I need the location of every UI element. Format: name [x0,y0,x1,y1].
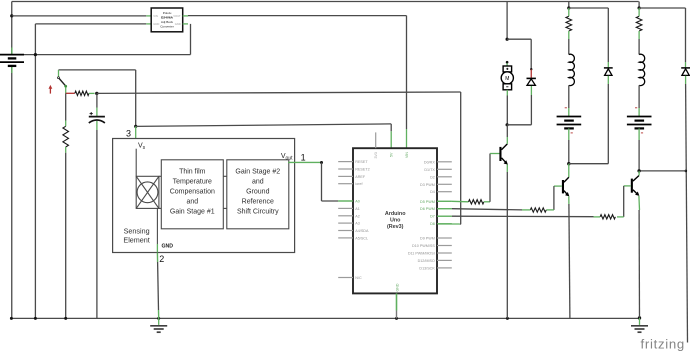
svg-text:(Rev3): (Rev3) [387,224,404,230]
svg-text:D3 PWM: D3 PWM [420,183,435,187]
svg-text:Converter: Converter [160,24,174,28]
svg-text:RESET: RESET [355,160,368,164]
svg-text:Gain Stage #2: Gain Stage #2 [235,169,280,176]
svg-text:A5/SCL: A5/SCL [355,236,368,240]
svg-text:and: and [252,179,264,186]
svg-text:AREF: AREF [355,175,366,179]
svg-text:D5 PWM: D5 PWM [420,200,435,204]
svg-text:D0/RX: D0/RX [424,160,435,164]
svg-text:Uno: Uno [390,217,401,223]
svg-text:Pololu: Pololu [163,11,172,15]
svg-text:M: M [505,76,509,82]
svg-text:GND: GND [162,244,174,250]
svg-text:Vs: Vs [138,143,146,151]
svg-text:D7: D7 [430,215,435,219]
svg-text:ioref: ioref [355,182,363,186]
svg-text:D12/MISO: D12/MISO [418,259,435,263]
svg-text:Shift Circuitry: Shift Circuitry [237,208,279,215]
svg-text:3V3: 3V3 [374,152,378,158]
svg-text:Sensing: Sensing [124,227,150,236]
svg-text:Vout: Vout [281,153,293,161]
svg-text:5V: 5V [390,152,394,157]
svg-text:GND: GND [396,283,400,291]
svg-text:A1: A1 [355,207,360,211]
svg-text:Gain Stage #1: Gain Stage #1 [170,208,215,215]
svg-text:A3: A3 [355,222,360,226]
svg-text:Element: Element [123,236,149,245]
svg-text:Compensation: Compensation [170,189,215,196]
svg-text:Thin film: Thin film [179,169,206,176]
svg-text:D2: D2 [430,175,435,179]
svg-text:A0: A0 [355,200,360,204]
svg-text:A2: A2 [355,214,360,218]
svg-text:VIN: VIN [405,152,409,158]
svg-text:RESET2: RESET2 [355,168,369,172]
svg-text:D11 PWM/MOSI: D11 PWM/MOSI [408,252,435,256]
svg-text:2: 2 [159,254,164,264]
svg-text:D8: D8 [430,222,435,226]
svg-text:Arduino: Arduino [385,211,406,217]
svg-text:D4: D4 [430,190,435,194]
svg-text:Ground: Ground [246,189,269,196]
svg-text:VIN: VIN [153,14,158,18]
svg-text:VOUT: VOUT [173,14,181,18]
svg-text:D9 PWM: D9 PWM [420,237,435,241]
svg-text:D13/SCK: D13/SCK [419,266,435,270]
svg-text:D10 PWM/SS: D10 PWM/SS [412,244,435,248]
svg-text:and: and [186,198,198,205]
svg-text:Adj Buck: Adj Buck [161,20,174,24]
svg-text:1: 1 [301,153,306,163]
svg-text:GND: GND [175,22,181,26]
svg-text:Reference: Reference [242,198,274,205]
svg-text:A4/SDA: A4/SDA [355,229,369,233]
svg-text:GND: GND [153,22,159,26]
svg-text:D24V6A: D24V6A [161,15,173,19]
svg-text:D6 PWM: D6 PWM [420,207,435,211]
svg-text:fritzing: fritzing [641,336,685,351]
svg-text:Temperature: Temperature [173,179,212,186]
svg-text:N/C: N/C [355,276,362,280]
svg-text:3: 3 [126,128,131,138]
svg-text:D1/TX: D1/TX [424,168,435,172]
